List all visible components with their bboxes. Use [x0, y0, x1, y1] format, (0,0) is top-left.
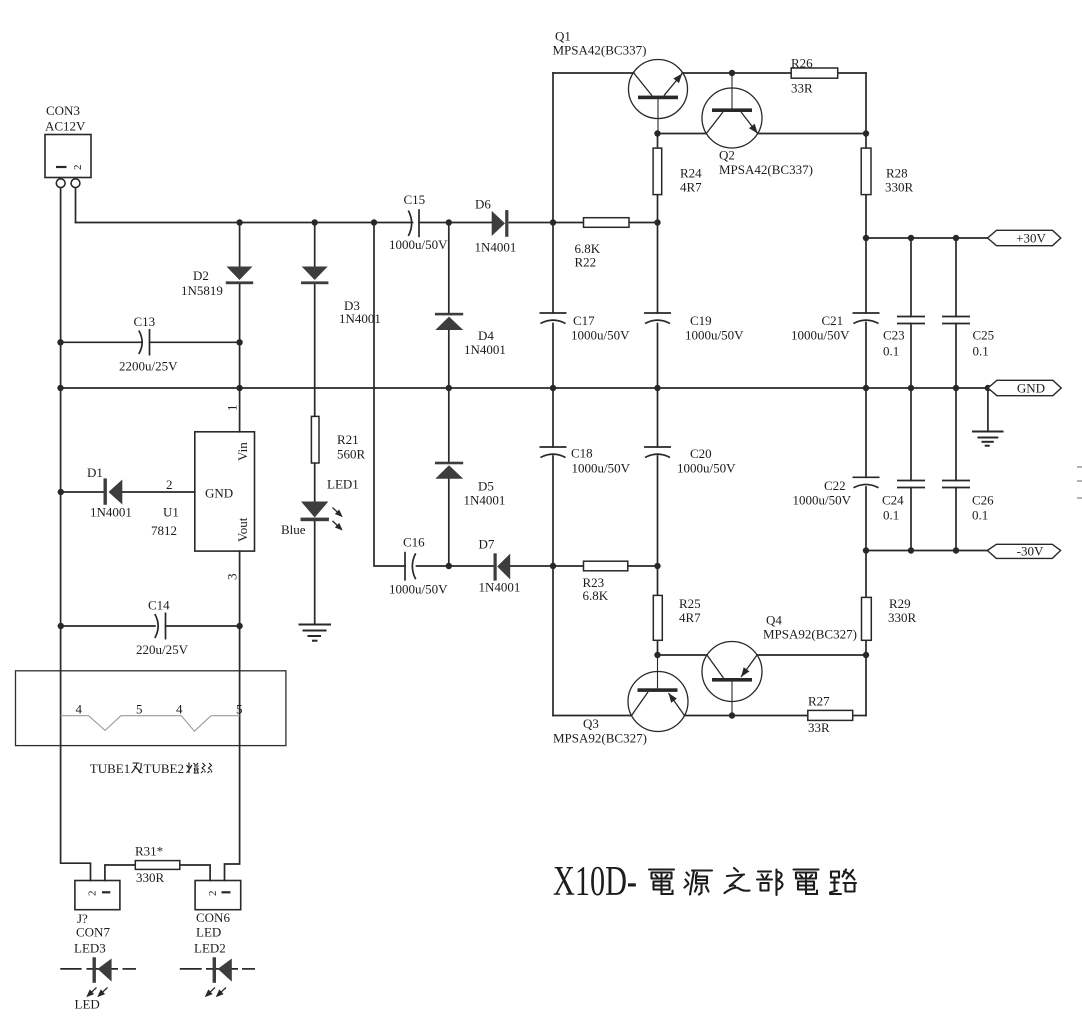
svg-text:D5: D5	[478, 479, 494, 494]
svg-text:LED3: LED3	[74, 941, 106, 956]
svg-text:7812: 7812	[151, 523, 177, 538]
svg-text:330R: 330R	[885, 180, 914, 195]
svg-text:D6: D6	[475, 197, 491, 212]
svg-text:MPSA92(BC327): MPSA92(BC327)	[763, 627, 857, 642]
svg-text:TUBE1: TUBE1	[90, 761, 130, 776]
svg-text:2: 2	[207, 891, 219, 897]
svg-text:C26: C26	[972, 493, 994, 508]
svg-text:4R7: 4R7	[679, 610, 701, 625]
svg-text:C19: C19	[690, 313, 712, 328]
svg-text:TUBE2: TUBE2	[144, 761, 184, 776]
svg-text:1N4001: 1N4001	[475, 240, 517, 255]
svg-text:AC12V: AC12V	[45, 119, 86, 134]
svg-text:1000u/50V: 1000u/50V	[389, 237, 448, 252]
svg-text:C25: C25	[973, 328, 995, 343]
svg-text:C22: C22	[824, 478, 846, 493]
svg-text:2200u/25V: 2200u/25V	[119, 359, 178, 374]
svg-text:4: 4	[76, 702, 83, 717]
svg-text:1000u/50V: 1000u/50V	[571, 328, 630, 343]
svg-text:4R7: 4R7	[680, 180, 702, 195]
svg-text:R28: R28	[886, 166, 908, 181]
svg-text:CON3: CON3	[46, 103, 80, 118]
svg-text:LED2: LED2	[194, 941, 226, 956]
svg-text:1N5819: 1N5819	[181, 283, 223, 298]
svg-text:2: 2	[72, 165, 84, 171]
svg-text:MPSA42(BC337): MPSA42(BC337)	[719, 162, 813, 177]
svg-text:C20: C20	[690, 446, 712, 461]
svg-text:R21: R21	[337, 432, 359, 447]
svg-text:1000u/50V: 1000u/50V	[389, 582, 448, 597]
svg-text:330R: 330R	[136, 870, 165, 885]
svg-text:1N4001: 1N4001	[90, 505, 132, 520]
svg-text:R27: R27	[808, 694, 830, 709]
svg-text:R26: R26	[791, 56, 813, 71]
svg-text:LED1: LED1	[327, 477, 359, 492]
svg-text:1: 1	[225, 405, 240, 412]
svg-text:1N4001: 1N4001	[464, 342, 506, 357]
svg-text:C14: C14	[148, 598, 170, 613]
svg-text:Q4: Q4	[766, 613, 782, 628]
svg-text:LED: LED	[196, 925, 221, 940]
svg-text:C24: C24	[882, 493, 904, 508]
svg-text:R22: R22	[575, 255, 597, 270]
svg-text:1000u/50V: 1000u/50V	[572, 461, 631, 476]
svg-text:33R: 33R	[808, 720, 830, 735]
svg-text:Vin: Vin	[235, 442, 250, 461]
svg-text:CON7: CON7	[76, 925, 110, 940]
svg-text:220u/25V: 220u/25V	[136, 642, 189, 657]
svg-text:D1: D1	[87, 465, 103, 480]
svg-text:1000u/50V: 1000u/50V	[793, 493, 852, 508]
svg-text:D2: D2	[193, 268, 209, 283]
svg-text:0.1: 0.1	[883, 344, 899, 359]
svg-text:C17: C17	[573, 313, 595, 328]
svg-text:330R: 330R	[888, 610, 917, 625]
svg-text:0.1: 0.1	[972, 508, 988, 523]
svg-text:+30V: +30V	[1016, 231, 1046, 246]
svg-text:Q3: Q3	[583, 716, 599, 731]
svg-text:X10D-: X10D-	[553, 859, 637, 905]
svg-text:MPSA92(BC327): MPSA92(BC327)	[553, 731, 647, 746]
svg-text:Q2: Q2	[719, 148, 735, 163]
svg-text:CON6: CON6	[196, 910, 230, 925]
svg-text:C18: C18	[571, 446, 593, 461]
svg-text:GND: GND	[205, 486, 233, 501]
svg-text:U1: U1	[163, 505, 179, 520]
svg-text:R24: R24	[680, 166, 702, 181]
svg-text:5: 5	[136, 702, 143, 717]
svg-text:5: 5	[236, 702, 243, 717]
svg-text:0.1: 0.1	[973, 344, 989, 359]
svg-text:-30V: -30V	[1017, 543, 1044, 558]
svg-text:1000u/50V: 1000u/50V	[677, 461, 736, 476]
svg-text:33R: 33R	[791, 81, 813, 96]
svg-text:Q1: Q1	[555, 29, 571, 44]
svg-text:LED: LED	[75, 997, 100, 1012]
svg-text:6.8K: 6.8K	[583, 588, 609, 603]
svg-text:2: 2	[166, 477, 173, 492]
svg-text:3: 3	[225, 574, 240, 581]
svg-text:MPSA42(BC337): MPSA42(BC337)	[553, 43, 647, 58]
svg-text:560R: 560R	[337, 447, 366, 462]
svg-text:R29: R29	[889, 596, 911, 611]
svg-text:4: 4	[176, 702, 183, 717]
svg-text:C21: C21	[822, 313, 844, 328]
svg-text:1000u/50V: 1000u/50V	[685, 328, 744, 343]
svg-text:D4: D4	[478, 328, 494, 343]
svg-text:Blue: Blue	[281, 522, 306, 537]
svg-text:1000u/50V: 1000u/50V	[791, 328, 850, 343]
svg-text:D7: D7	[479, 537, 495, 552]
svg-text:R25: R25	[679, 596, 701, 611]
svg-text:C15: C15	[404, 192, 426, 207]
svg-text:1N4001: 1N4001	[464, 493, 506, 508]
svg-text:1N4001: 1N4001	[339, 311, 381, 326]
svg-text:1N4001: 1N4001	[479, 580, 521, 595]
svg-text:Vout: Vout	[235, 517, 250, 542]
svg-text:C23: C23	[883, 328, 905, 343]
svg-text:R31*: R31*	[135, 844, 163, 859]
svg-text:GND: GND	[1017, 381, 1045, 396]
svg-text:0.1: 0.1	[883, 508, 899, 523]
svg-text:C16: C16	[403, 535, 425, 550]
svg-text:2: 2	[87, 891, 99, 897]
svg-text:C13: C13	[134, 314, 156, 329]
